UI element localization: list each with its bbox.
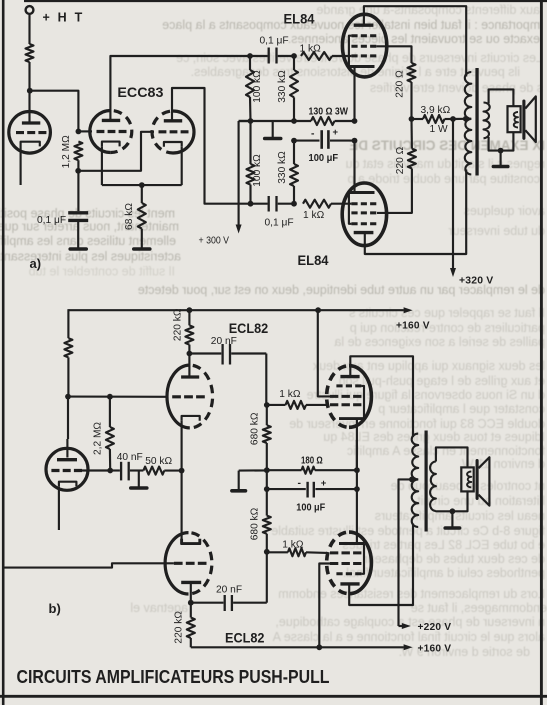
wire: junction into ECC83-A grid — [78, 130, 92, 132]
wire: upper pentode anode to transformer primary top — [350, 356, 413, 437]
node: anode / 20nF / 220k junction — [188, 600, 194, 606]
tube ECL82 upper pentode envelope — [349, 366, 371, 428]
svg-text:avoir quelques: avoir quelques — [464, 204, 545, 218]
node: 680k centre / 180 ohm junction — [264, 467, 270, 473]
node: V1 anode / grid-feed junction — [27, 88, 33, 94]
triode V1 grid — [16, 131, 46, 134]
wire: left rail to input tube anode — [67, 357, 69, 396]
capacitor 100 uF (b) — [267, 488, 306, 490]
tube ECC83 section A envelope — [90, 111, 111, 153]
svg-text:ellement utilises dans les amp: ellement utilises dans les amplifica- — [0, 234, 176, 248]
input triode cathode — [59, 482, 77, 487]
ECL82 upper pentode cathode — [339, 417, 364, 420]
wire: common cathode bus — [102, 184, 182, 186]
svg-text:+: + — [321, 478, 327, 489]
triode V1 anode — [22, 121, 40, 124]
svg-text:20 nF: 20 nF — [211, 336, 237, 347]
resistor 130 ohm 3W — [311, 117, 335, 125]
tube ECL82 lower pentode envelope — [349, 532, 371, 594]
ECC83-B grid — [159, 130, 189, 133]
node: input anode / grid-feed junction — [65, 394, 71, 400]
node: rail / 220k junction — [187, 307, 193, 313]
svg-text:figure 8-b Ce circuit a: figure 8-b Ce circuit a pentode est illu… — [271, 524, 545, 538]
svg-text:+: + — [333, 127, 339, 138]
speaker LS1 frame — [508, 106, 521, 132]
resistor 1 kohm (upper grid stopper) — [301, 52, 332, 60]
resistor 220 kohm (upper) — [188, 310, 190, 325]
tube EL84 upper envelope — [342, 14, 386, 77]
svg-text:de ces deux tubes de d: de ces deux tubes de dephaseur — [364, 552, 545, 566]
resistor 100 kohm (upper) — [249, 56, 251, 70]
svg-text:double ECC 83 qui fonctionne e: double ECC 83 qui fonctionne en inverseu… — [289, 417, 545, 431]
svg-text:e bo tube ECL 82 Les parti: e bo tube ECL 82 Les parties triodes — [343, 538, 545, 552]
wire: junction to ECC83-A grid node — [30, 91, 79, 132]
resistor 220 ohm (lower screen) — [410, 119, 413, 149]
svg-text:1 kΩ: 1 kΩ — [303, 210, 325, 221]
capacitor 0.1 uF (upper coupling) — [268, 48, 270, 64]
EL84 upper control grid — [351, 54, 376, 57]
svg-text:-: - — [298, 478, 302, 489]
node: rail / screen feed junction — [315, 307, 321, 313]
wire: lower triode anode down to 20nF node — [190, 582, 192, 602]
EL84 lower control grid — [351, 202, 376, 205]
svg-text:220 kΩ: 220 kΩ — [172, 308, 183, 341]
svg-text:330 kΩ: 330 kΩ — [277, 70, 288, 103]
ground: below 68k — [141, 229, 143, 248]
node: secondary ground junction — [498, 148, 504, 154]
node: cathode bus / 68k junction — [139, 182, 145, 188]
wire: 1.2M bottom to ECC83-B grid — [78, 132, 154, 171]
triode V1 envelope — [9, 112, 51, 154]
svg-text:les deux signaux qui app: les deux signaux qui appliqu ent aux deu… — [312, 359, 545, 373]
EL84 lower anode — [354, 231, 374, 234]
ECL82 upper pentode suppressor tie — [361, 386, 364, 419]
node: cathode bus / 50k junction — [179, 468, 185, 474]
input triode grid — [51, 469, 82, 472]
EL84 lower suppressor tie to cathode — [349, 193, 352, 224]
EL84 lower suppressor grid — [351, 222, 376, 225]
svg-text:100 μF: 100 μF — [296, 503, 325, 514]
svg-text:50 kΩ: 50 kΩ — [145, 456, 172, 467]
tube ECC83 section B envelope — [173, 111, 194, 153]
svg-text:40 nF: 40 nF — [117, 452, 143, 463]
capacitor 0.1 uF (V1 stage, vertical) — [77, 171, 79, 211]
transformer T1 core — [475, 68, 478, 176]
capacitor 0.1 uF (lower coupling) — [251, 203, 268, 205]
wire: terminal to dropping resistor — [28, 14, 30, 44]
speaker LS2 frame — [461, 467, 473, 491]
wire: ground stub to 680k centre — [239, 469, 267, 471]
input terminal +HT — [26, 6, 34, 14]
resistor HT dropper (unlabeled) — [26, 44, 34, 62]
wire: ECC83-B cathode down to cathode bus — [181, 147, 183, 185]
svg-text:constitue par une double triod: constitue par une double triode a p — [347, 172, 540, 186]
wire: EL84 upper screen to 220 ohm chain — [376, 46, 411, 63]
svg-text:220 Ω: 220 Ω — [394, 70, 405, 98]
svg-text:1 kΩ: 1 kΩ — [282, 540, 304, 551]
wire: ECC83-A anode up and right to coupling node — [110, 56, 250, 120]
ECL82 upper triode grid — [172, 395, 205, 398]
svg-text:1 kΩ: 1 kΩ — [300, 43, 322, 54]
svg-text:particuliers de contre-react: particuliers de contre-reaction qui p — [350, 321, 545, 335]
wire: dropper to V1 anode, node at HT junction — [28, 62, 30, 122]
svg-text:0,1 μF: 0,1 μF — [260, 35, 289, 46]
EL84 upper cathode — [349, 65, 375, 68]
resistor 330 kohm (upper) — [293, 56, 295, 70]
EL84 upper screen grid — [351, 45, 376, 48]
svg-text:Il faut se rappeler que ces ci: Il faut se rappeler que ces circuits s — [349, 306, 545, 320]
ECC83-B cathode — [164, 142, 182, 147]
resistor 50 kohm — [143, 467, 164, 475]
svg-text:68 kΩ: 68 kΩ — [124, 203, 135, 230]
node: 100uF right / cathode junction — [354, 486, 360, 492]
wire: centre tap to +220V — [399, 479, 412, 626]
node: T2 primary centre tap — [409, 477, 415, 483]
ECL82 lower pentode cathode — [339, 542, 364, 545]
resistor 3.9 kohm 1W — [412, 118, 424, 120]
svg-text:330 kΩ: 330 kΩ — [277, 151, 288, 184]
EL84 lower cathode — [349, 191, 375, 194]
svg-text:Les circuits inverseurs de pha: Les circuits inverseurs de phase doivent… — [176, 51, 543, 65]
svg-text:0,1 μF: 0,1 μF — [37, 215, 66, 226]
wire: T2 secondary bottom to speaker and ground node — [436, 491, 468, 511]
svg-text:680 kΩ: 680 kΩ — [250, 507, 261, 540]
resistor 180 ohm — [267, 469, 302, 471]
speaker LS1 voice coil — [514, 112, 518, 128]
node: 1.2M bottom junction — [75, 168, 81, 174]
svg-text:regnes s il s agit du mauvais: regnes s il s agit du mauvais etat du — [346, 157, 545, 171]
svg-text:1 kΩ: 1 kΩ — [279, 389, 301, 400]
arrow +320V — [450, 268, 456, 277]
wire: 680k lower to 20nF lower — [266, 552, 268, 603]
wire: input cathode lead (open end) — [58, 486, 60, 530]
capacitor 40 nF — [110, 469, 120, 471]
node: cathode join upper — [352, 118, 358, 124]
node: 1k / 680k lower junction — [264, 549, 270, 555]
ECL82 upper triode cathode — [182, 416, 200, 421]
wire: upper pentode cathode down — [356, 419, 358, 471]
wire: EL84 upper anode to transformer primary top — [364, 6, 466, 76]
transformer T1 secondary winding — [484, 103, 490, 139]
resistor 1.2 Mohm — [74, 142, 82, 161]
transformer T1 primary winding — [465, 72, 472, 119]
transformer T2 core — [425, 431, 428, 532]
wire: input grid to 40nF node — [82, 469, 110, 471]
node: ECC83-A grid / 1.2M junction — [76, 129, 82, 135]
svg-text:CIRCUITS AMPLIFICATEURS PUSH-P: CIRCUITS AMPLIFICATEURS PUSH-PULL — [17, 667, 330, 687]
wire: T2 secondary top to speaker — [436, 447, 468, 467]
svg-text:2,2 MΩ: 2,2 MΩ — [93, 422, 104, 455]
node: 100uF left junction — [264, 486, 270, 492]
svg-text:d environ 11 W.: d environ 11 W. — [459, 457, 545, 471]
svg-text:+160 V: +160 V — [418, 643, 452, 654]
svg-text:exacte ou se trouvaient les pi: exacte ou se trouvaient les pieces ancie… — [288, 32, 540, 46]
node: 1k / 680k upper junction — [264, 402, 270, 408]
svg-text:ECC83: ECC83 — [117, 84, 163, 100]
wire: +300V feed — [239, 121, 251, 225]
svg-text:n inverseur de phase est a cou: n inverseur de phase est a couplage cath… — [275, 615, 545, 629]
svg-text:180 Ω: 180 Ω — [301, 456, 323, 467]
svg-text:EL84: EL84 — [284, 10, 315, 26]
svg-text:220 kΩ: 220 kΩ — [174, 611, 185, 644]
wire: +160V top rail — [68, 309, 403, 311]
wire: ECC83-B anode up over to lower coupling node — [172, 88, 251, 204]
node: lower coupling / 100k bottom — [248, 201, 254, 207]
tube ECL82 upper triode envelope — [167, 365, 190, 428]
node: 330k mid junction — [291, 118, 297, 124]
ECL82 lower pentode suppressor — [336, 572, 361, 575]
wire: EL84 lower cathode up to 100uF node — [353, 141, 355, 193]
tube EL84 lower envelope — [342, 183, 386, 246]
svg-text:100 kΩ: 100 kΩ — [252, 154, 263, 187]
triode V1 cathode — [21, 142, 40, 147]
wire: splitter cathodes bus (vertical) — [181, 421, 183, 542]
wire: 680k centre down to 100uF node — [266, 470, 268, 489]
svg-text:+320 V: +320 V — [459, 276, 493, 287]
wire: pentode cathodes bus — [356, 440, 358, 544]
wire: EL84 lower anode to transformer primary bottom — [365, 170, 466, 255]
resistor 1 kohm (b upper) — [267, 404, 286, 406]
svg-text:alors que le circuit final fon: alors que le circuit final fonctionne e … — [272, 630, 545, 644]
svg-text:-: - — [311, 128, 315, 139]
resistor input anode load (unlabeled) — [64, 338, 72, 357]
svg-text:20 nF: 20 nF — [216, 585, 242, 596]
svg-text:220 Ω: 220 Ω — [395, 146, 406, 174]
resistor 2.2 Mohm — [109, 397, 111, 427]
svg-text:100 kΩ: 100 kΩ — [252, 70, 263, 103]
svg-text:penthodes celui d amplificateu: penthodes celui d amplificateur final. — [343, 566, 545, 580]
wire: ECC83-A cathode down to cathode bus — [101, 146, 103, 185]
ECL82 lower triode anode — [181, 581, 201, 584]
node: screen bus / 3.9k junction — [409, 116, 415, 122]
transformer T2 primary winding — [412, 434, 419, 480]
arrow +300V — [236, 225, 242, 234]
ECL82 lower triode cathode — [182, 539, 200, 544]
ECC83-A anode — [102, 119, 120, 122]
svg-text:ECL82: ECL82 — [229, 320, 269, 336]
ECL82 lower pentode suppressor tie — [361, 544, 364, 574]
node: 2.2M top junction — [107, 394, 113, 400]
node: 40nF / 2.2M junction — [107, 468, 113, 474]
wire: 20nF down to 1k/680k node — [265, 354, 267, 406]
node: 330k bottom / 1k lower — [291, 201, 297, 207]
node: triode anode / 20nF junction — [187, 351, 193, 357]
wire: grid feed to ECL82 upper triode — [68, 396, 169, 398]
resistor 220 kohm (lower) — [190, 603, 192, 618]
svg-text:1,2 MΩ: 1,2 MΩ — [61, 135, 72, 168]
resistor 220 ohm (upper screen) — [408, 63, 416, 82]
node: bottom rail / screen junction — [316, 644, 322, 650]
speaker LS1 cone — [522, 101, 525, 138]
resistor 100 kohm (lower) — [249, 121, 251, 164]
wire: lower pentode anode to transformer primary bottom — [349, 524, 413, 606]
wire: secondary top to speaker — [489, 89, 514, 106]
input triode anode — [57, 458, 77, 461]
wire: upper pentode screen to +160V rail — [318, 310, 330, 396]
svg-text:acteristiques les plus inte: acteristiques les plus interessantes. — [0, 250, 181, 264]
svg-text:3,9 kΩ: 3,9 kΩ — [421, 105, 451, 116]
node: 330k top / 1k left — [291, 53, 297, 59]
ECC83-A cathode — [102, 142, 120, 147]
ECL82 lower pentode screen — [330, 562, 361, 565]
tube ECL82 input triode envelope — [46, 448, 88, 490]
ECL82 upper triode anode — [181, 375, 199, 378]
node: 180 ohm / pentode cathode junction — [354, 467, 360, 473]
svg-text:maintenant, nous arreter sur q: maintenant, nous arreter sur quelques — [0, 220, 179, 234]
ECL82 upper pentode anode — [340, 375, 359, 378]
capacitor 100 uF electrolytic — [294, 140, 320, 142]
resistor 1 kohm (lower grid stopper) — [303, 200, 331, 208]
svg-text:+ H T: + H T — [43, 11, 85, 25]
wire: left rail down — [67, 309, 69, 338]
ECC83-A grid — [97, 130, 127, 133]
EL84 lower screen grid — [351, 211, 376, 214]
speaker LS2 voice coil — [467, 472, 471, 488]
ground: secondary — [500, 151, 502, 166]
ECC83-B anode — [164, 119, 182, 122]
ECL82 upper pentode suppressor — [336, 384, 361, 387]
svg-text:du tube inverseur: du tube inverseur — [448, 224, 545, 238]
EL84 upper suppressor tie to cathode — [349, 36, 352, 67]
svg-text:ECL82: ECL82 — [225, 629, 265, 645]
ECL82 lower triode grid — [174, 562, 207, 565]
svg-text:a): a) — [30, 256, 42, 271]
svg-text:680 kΩ: 680 kΩ — [250, 412, 261, 445]
svg-text:IX EXAMEN DES CIRCUITS DE: IX EXAMEN DES CIRCUITS DE — [349, 138, 545, 153]
svg-text:endommagees, il faut se: endommagees, il faut se — [411, 601, 547, 615]
ground: below 0.1uF — [77, 222, 79, 248]
tube ECL82 lower triode envelope — [165, 533, 188, 594]
svg-text:fonctionnement en classe A: fonctionnement en classe A amplific — [347, 444, 545, 458]
resistor 680 kohm (lower) — [266, 489, 268, 515]
node: cathode join lower — [352, 138, 358, 144]
capacitor 20 nF (lower) — [191, 602, 224, 604]
svg-text:aux differents composants-a un: aux differents composants-a une grande — [316, 3, 540, 17]
ground: cathode bias bus — [272, 121, 274, 137]
transformer T2 secondary winding — [430, 462, 436, 512]
wire: +320V drop — [452, 119, 454, 269]
arrow +160V top — [404, 307, 413, 313]
wire: lower triode grid to page edge — [4, 563, 174, 567]
node: +320V / primary tap junction — [450, 116, 456, 122]
ECL82 lower pentode control grid — [330, 551, 361, 554]
ECL82 upper pentode control grid — [330, 403, 361, 406]
capacitor 20 nF (upper) — [189, 352, 221, 354]
EL84 upper anode — [354, 24, 374, 27]
ECL82 lower pentode anode — [340, 582, 359, 585]
svg-text:+ 300 V: + 300 V — [199, 236, 230, 247]
resistor 68 kohm — [141, 185, 143, 203]
resistor 1 kohm (b lower) — [267, 551, 288, 553]
svg-text:b): b) — [49, 601, 61, 616]
wire: +160V bottom rail — [191, 646, 404, 648]
svg-text:+220 V: +220 V — [418, 622, 452, 633]
ground: splitter bias divider — [238, 471, 240, 490]
arrow +220V — [402, 623, 411, 629]
node: 330k mid-lower junction — [291, 138, 297, 144]
ECL82 upper pentode screen — [330, 395, 361, 398]
svg-text:+160 V: +160 V — [396, 320, 430, 331]
speaker LS2 cone — [476, 461, 479, 499]
wire: V1 cathode lead (open end) — [20, 147, 22, 185]
wire: lower pentode screen to +160V bottom rail — [319, 564, 330, 648]
wire: secondary bottom to speaker and ground node — [489, 132, 514, 150]
resistor 680 kohm (upper) — [266, 405, 268, 425]
wire: screen chain to EL84 lower screen — [377, 169, 412, 213]
resistor 330 kohm (lower) — [293, 141, 295, 164]
svg-text:EL84: EL84 — [298, 252, 329, 268]
wire: to transformer primary centre tap — [453, 118, 466, 120]
svg-text:1 W: 1 W — [430, 124, 448, 135]
ground: between 40nF and 50k — [138, 471, 140, 487]
node: T2 secondary ground junction — [450, 508, 456, 514]
wire: bias bus y=121 — [239, 120, 311, 122]
node: 100k top — [247, 53, 253, 59]
svg-text:constater que l amplificat: constater que l amplificateur p — [378, 402, 545, 416]
node: primary centre tap — [463, 116, 469, 122]
arrow +160V bottom — [404, 644, 413, 650]
node: 100k mid junction — [248, 118, 254, 124]
svg-text:pailles de seriel a son exigen: pailles de seriel a son exigences de la — [334, 335, 545, 349]
svg-text:Il suffit de contrebler le tub: Il suffit de contrebler le tub — [29, 265, 175, 279]
svg-text:130 Ω 3W: 130 Ω 3W — [309, 107, 349, 118]
svg-text:100 μF: 100 μF — [309, 153, 339, 164]
svg-text:Lors du remplacement des r: Lors du remplacement des resistances end… — [278, 587, 545, 601]
EL84 upper suppressor grid — [351, 34, 376, 37]
svg-text:0,1 μF: 0,1 μF — [265, 217, 294, 228]
wire: EL84 upper cathode down to bias bus — [353, 67, 355, 122]
ground: T2 secondary — [451, 511, 453, 527]
